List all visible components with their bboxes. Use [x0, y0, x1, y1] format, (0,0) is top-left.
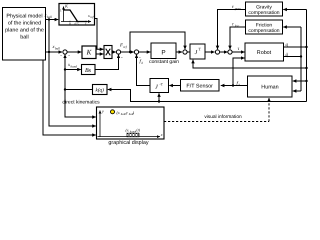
block: J^-T — [150, 79, 169, 93]
wire x_ball branch down to main line — [48, 20, 50, 53]
block: gain profile (K vs position graph) — [59, 4, 95, 26]
block: Robot — [245, 43, 284, 61]
ball yellow marker — [111, 110, 115, 114]
svg-text:ball: ball — [20, 35, 28, 41]
wire multiplier to summing junction S2 — [112, 51, 116, 53]
wire Bs output up into S2 (minus) — [95, 55, 119, 70]
svg-text:compensation: compensation — [248, 28, 279, 34]
wire friction comp output tau_fric down into S6 — [230, 27, 246, 49]
node junction on x_ball upper wire — [48, 18, 50, 20]
svg-text:ball: ball — [55, 46, 60, 50]
node x_hand junction at kinematics output — [64, 88, 66, 90]
wire main line from model to summing junction S1 — [46, 51, 63, 53]
svg-text:ball: ball — [47, 15, 52, 19]
node q bus junction at 81 — [305, 80, 307, 82]
block: k(q) direct kinematics — [93, 85, 108, 95]
wire qdot bus to Friction compensation input — [283, 26, 301, 28]
summing junction S2 — [116, 50, 120, 54]
svg-text:visual information: visual information — [204, 114, 242, 120]
wire f_h up into Robot second input — [233, 58, 245, 86]
summing junction S3 — [134, 50, 138, 54]
block: F/T Sensor — [181, 80, 220, 92]
svg-text:compensation: compensation — [248, 10, 279, 16]
wire x_hand up into S1 — [64, 55, 66, 62]
svg-text:of the inclined: of the inclined — [8, 21, 41, 27]
graph curve: flat then ramp down to zero — [64, 10, 88, 22]
wire K to multiplier lower input — [96, 53, 103, 55]
wire q bus to Gravity compensation input — [283, 9, 306, 11]
node f_h junction — [232, 84, 234, 86]
wire q branch to Human upper right input — [293, 80, 307, 82]
graph x-axis — [61, 21, 91, 23]
svg-text:K: K — [86, 49, 92, 57]
svg-text:grav: grav — [235, 6, 241, 10]
svg-text:P: P — [161, 50, 165, 57]
wire q branch to J^T bottom input — [193, 60, 307, 68]
svg-text:hand: hand — [71, 64, 78, 68]
block: Gravity compensation — [246, 2, 283, 16]
graph tick marks — [70, 21, 86, 23]
wire S3 to P block — [139, 51, 151, 53]
node q bus junction at 68 — [305, 67, 307, 69]
block: multiplier X — [104, 46, 112, 59]
node F_ref junction — [129, 51, 131, 53]
wire P to S4 — [176, 51, 182, 53]
wire k(q) output x_hand to left — [65, 89, 93, 91]
summing junction S5 — [215, 50, 219, 54]
wire gain-profile output down to multiplier top input — [95, 19, 104, 50]
wire q feedback up into J^-T bottom — [158, 93, 160, 101]
block: Bs — [82, 65, 96, 75]
node q bus top junction — [305, 46, 307, 48]
svg-text:J: J — [195, 50, 198, 56]
svg-text:Physical model: Physical model — [6, 14, 42, 20]
wire qdot to Human lower right input — [293, 90, 301, 92]
svg-text:1: 1 — [60, 9, 62, 13]
wire y-output from model bottom down to graphical display input 3 — [43, 60, 96, 135]
summing junction S4 — [183, 50, 187, 54]
wire F/T Sensor output to J^-T — [169, 85, 180, 87]
node junction x_ball on main line — [48, 51, 50, 53]
block: Physical model of the inclined plane and of the ball — [3, 8, 46, 61]
svg-text:k(q): k(q) — [96, 88, 105, 94]
svg-text:J: J — [155, 85, 158, 91]
svg-text:plane and of the: plane and of the — [5, 28, 44, 34]
svg-text:graphical display: graphical display — [108, 140, 148, 146]
wire S1 to K block — [67, 51, 81, 53]
svg-text:,y: ,y — [125, 110, 128, 115]
wire x_ball branch down to graphical display input 2 — [49, 52, 96, 126]
wire Human force f_h to junction and F/T sensor — [221, 85, 248, 87]
q bus vertical — [306, 10, 308, 102]
wire gravity comp output tau_grav down into S5 — [218, 10, 246, 50]
summing junction S6 — [228, 50, 232, 54]
wire x_hand branch to Bs block — [65, 69, 81, 71]
qdot bus vertical — [300, 27, 302, 91]
svg-text:Bs: Bs — [85, 68, 92, 74]
svg-text:1: 1 — [85, 22, 87, 26]
svg-text:direct kinematics: direct kinematics — [62, 99, 100, 105]
node junction on x_hand line for Bs branch — [64, 68, 66, 70]
wire F_ref bypass over P into S4 — [130, 32, 185, 52]
svg-text:τ: τ — [238, 47, 240, 52]
wire Robot qdot output to inner bus — [284, 56, 302, 58]
block: P constant gain — [151, 43, 176, 59]
wire Robot q output to right bus — [284, 46, 307, 48]
wire x_hand vertical: up to S1 and down to display input 1 — [65, 62, 96, 117]
svg-text:Robot: Robot — [257, 50, 272, 56]
node junction q feedback at J^-T — [158, 100, 160, 102]
hand slider hatched box — [127, 133, 139, 137]
node qdot bus junction — [300, 55, 302, 57]
svg-text:constant gain: constant gain — [149, 59, 179, 65]
block: K — [82, 46, 96, 59]
wire S6 to Robot with tau label — [232, 51, 244, 53]
wire x_ball upper output to gain-profile block — [46, 19, 59, 21]
display y-axis — [99, 111, 101, 138]
wire J^T to S5 — [205, 51, 215, 53]
wire q feedback line to kinematics — [108, 90, 307, 102]
svg-text:(x: (x — [126, 127, 129, 132]
graph y-axis with K label — [63, 7, 65, 22]
summing junction S1 — [63, 50, 67, 54]
svg-text:fric: fric — [235, 24, 240, 28]
svg-text:y: y — [101, 109, 104, 114]
svg-text:0.5: 0.5 — [75, 22, 80, 26]
display x-axis — [98, 136, 161, 138]
svg-text:F/T Sensor: F/T Sensor — [186, 84, 213, 90]
block: graphical display — [97, 107, 165, 139]
block: Friction compensation — [246, 20, 283, 34]
svg-text:x: x — [160, 132, 163, 137]
wire S2 to S3 with F_ref node — [121, 51, 134, 53]
svg-text:,0): ,0) — [135, 127, 140, 132]
svg-text:(x: (x — [117, 110, 120, 115]
block: J^T — [190, 44, 205, 59]
wire f_h from J^-T up into S3 — [137, 55, 151, 86]
dashed wire visual information from display to Human — [164, 121, 269, 123]
block: Human — [248, 76, 293, 97]
wire S4 to J^T block — [187, 51, 189, 53]
svg-text:Human: Human — [261, 85, 278, 91]
svg-text:0: 0 — [69, 22, 71, 26]
wire S5 to S6 — [220, 51, 228, 53]
